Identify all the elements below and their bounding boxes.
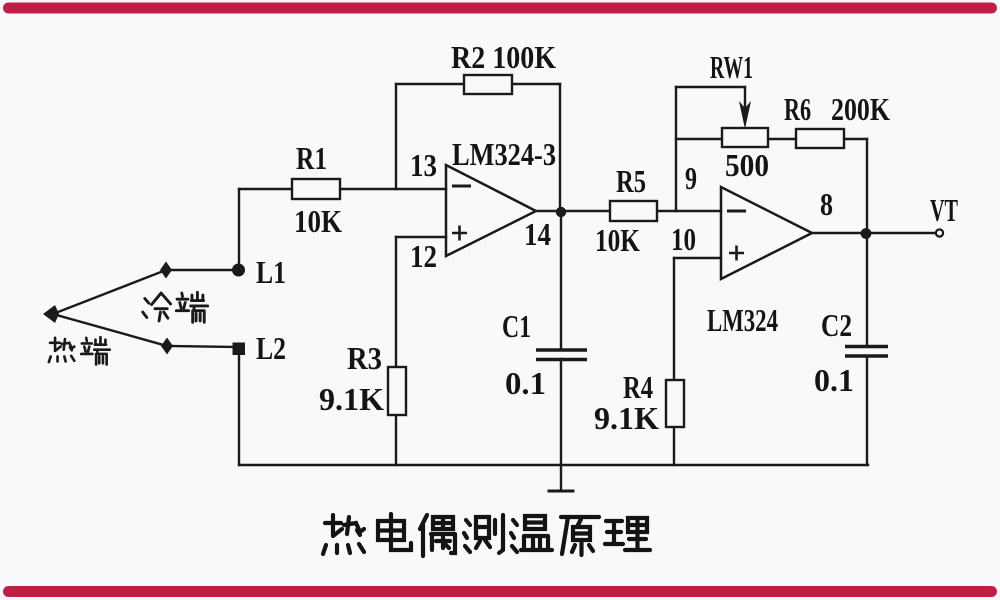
- svg-text:R6: R6: [784, 91, 811, 127]
- op-amp U1 LM324-3 triangle: [446, 165, 536, 256]
- junction node U1 output: [556, 207, 566, 217]
- wire L2 vertical down: [238, 347, 240, 465]
- wire RW1 loop top horizontal: [676, 86, 745, 88]
- svg-text:8: 8: [820, 186, 833, 222]
- svg-text:10K: 10K: [294, 203, 342, 239]
- node L2 solder pad: [233, 343, 246, 356]
- caption char 热: [323, 515, 364, 554]
- svg-text:LM324: LM324: [707, 302, 778, 338]
- wire RW1 wiper vertical: [744, 87, 746, 110]
- op-amp U2 plus sign: [729, 246, 744, 261]
- wire thermocouple upper arm: [53, 270, 166, 314]
- node L1 solder dot: [232, 264, 245, 277]
- wire C1 vertical upper: [560, 212, 562, 350]
- wire pin10 horizontal: [674, 257, 721, 259]
- wire C1 vertical lower: [560, 359, 562, 465]
- wire RW1 left lead: [676, 138, 722, 140]
- svg-text:14: 14: [524, 216, 551, 252]
- svg-text:10K: 10K: [595, 222, 640, 258]
- wire thermocouple lower arm: [53, 314, 167, 346]
- resistor R3 body: [388, 367, 406, 415]
- svg-text:C2: C2: [821, 307, 852, 343]
- capacitor C2 plates: [845, 347, 888, 357]
- wire ground bus bottom: [239, 464, 868, 466]
- thermocouple lower junction bead: [161, 338, 173, 355]
- svg-text:12: 12: [410, 238, 437, 274]
- caption char 电: [378, 514, 411, 550]
- svg-text:10: 10: [671, 221, 696, 257]
- text 端 (end) of 热端: [81, 337, 110, 364]
- svg-text:R5: R5: [616, 163, 646, 199]
- capacitor C1 plates: [536, 350, 587, 360]
- potentiometer RW1 body: [722, 128, 768, 147]
- resistor R5 body: [610, 201, 657, 221]
- resistor R6 body: [796, 129, 844, 148]
- wire pin12 horizontal: [396, 236, 446, 238]
- svg-text:0.1: 0.1: [505, 365, 546, 401]
- text 热 (hot) of 热端: [49, 338, 74, 362]
- wire feedback right vertical U1: [559, 84, 561, 212]
- op-amp U2 LM324 triangle: [721, 187, 812, 279]
- wire C2 vertical upper: [866, 233, 868, 346]
- wire R1 input horizontal: [239, 188, 446, 190]
- thermocouple upper junction bead: [160, 262, 172, 279]
- svg-text:0.1: 0.1: [814, 362, 854, 398]
- svg-text:R2 100K: R2 100K: [451, 39, 556, 75]
- wire RW1 to R6: [768, 138, 796, 140]
- wire C1 ground stub: [560, 465, 562, 491]
- svg-text:RW1: RW1: [710, 49, 753, 85]
- wire U1 output to R5: [536, 210, 610, 212]
- wire L1 to diamond: [166, 269, 239, 271]
- caption char 测: [464, 515, 503, 553]
- text 冷 (cold) of 冷端: [143, 293, 171, 321]
- wire R6 to right vertical: [844, 138, 867, 140]
- wire U2 output to VT: [812, 232, 935, 234]
- caption 热电偶测温原理 (thermocouple temperature measurement principle): [323, 514, 650, 556]
- ground bar under C1: [549, 490, 573, 493]
- wire feedback left vertical U1: [395, 84, 397, 189]
- top red banner bar: [3, 3, 997, 14]
- wire left vertical to L1: [238, 189, 240, 270]
- svg-text:R1: R1: [296, 140, 327, 176]
- wire C2 vertical lower: [866, 356, 868, 465]
- svg-text:L2: L2: [256, 330, 286, 366]
- terminal VT open circle: [936, 229, 943, 236]
- svg-text:9.1K: 9.1K: [594, 400, 659, 436]
- svg-text:13: 13: [410, 147, 437, 183]
- wire R4 vertical branch: [673, 258, 675, 465]
- wire right vertical R6 to output node: [866, 139, 868, 233]
- svg-text:LM324-3: LM324-3: [452, 136, 556, 172]
- text 端 (end) of 冷端: [176, 292, 207, 322]
- bottom red banner bar: [3, 586, 997, 597]
- svg-text:VT: VT: [930, 192, 958, 228]
- resistor R2 body: [464, 75, 512, 94]
- thermocouple hot tip bead: [43, 305, 59, 323]
- svg-text:C1: C1: [502, 308, 531, 344]
- wire L2 horizontal: [167, 346, 239, 347]
- caption char 理: [605, 518, 650, 550]
- svg-text:200K: 200K: [831, 91, 890, 127]
- wire R3 vertical branch: [395, 237, 397, 465]
- caption char 温: [511, 516, 552, 552]
- op-amp U1 plus sign: [452, 226, 467, 241]
- resistor R4 body: [666, 380, 684, 427]
- potentiometer RW1 wiper arrowhead: [739, 101, 751, 129]
- caption char 偶: [420, 515, 455, 556]
- op-amp U1 minus sign: [452, 185, 471, 188]
- wire feedback top horizontal U1: [396, 83, 560, 85]
- svg-text:9: 9: [685, 160, 697, 196]
- svg-text:9.1K: 9.1K: [319, 381, 384, 417]
- caption char 原: [561, 517, 599, 555]
- resistor R1 body: [292, 179, 340, 199]
- svg-text:500: 500: [725, 147, 769, 183]
- wire RW1 loop left vertical: [675, 87, 677, 211]
- junction node U2 output: [861, 228, 872, 239]
- svg-text:L1: L1: [256, 254, 286, 290]
- svg-text:R3: R3: [347, 340, 382, 376]
- wire R5 to U2 inverting input: [657, 210, 721, 212]
- op-amp U2 minus sign: [727, 210, 746, 213]
